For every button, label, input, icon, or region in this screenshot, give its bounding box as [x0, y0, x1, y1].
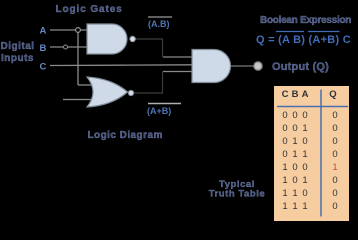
svg-text:0: 0	[292, 162, 297, 173]
svg-text:A: A	[40, 26, 47, 37]
svg-text:1: 1	[292, 201, 297, 212]
svg-text:1: 1	[282, 201, 287, 212]
svg-text:0: 0	[332, 188, 337, 199]
svg-text:0: 0	[332, 136, 337, 147]
svg-text:C: C	[282, 89, 289, 100]
svg-text:0: 0	[302, 110, 307, 121]
svg-text:1: 1	[292, 149, 297, 160]
svg-text:B: B	[292, 89, 299, 100]
svg-text:0: 0	[302, 188, 307, 199]
svg-text:0: 0	[282, 123, 287, 134]
svg-text:0: 0	[302, 136, 307, 147]
svg-text:Truth Table: Truth Table	[209, 189, 266, 200]
svg-text:0: 0	[282, 149, 287, 160]
svg-text:1: 1	[302, 123, 307, 134]
svg-text:Logic Gates: Logic Gates	[56, 4, 123, 15]
svg-text:0: 0	[332, 201, 337, 212]
svg-text:B: B	[40, 43, 47, 54]
svg-text:Q: Q	[329, 89, 336, 100]
svg-text:0: 0	[302, 162, 307, 173]
svg-text:0: 0	[282, 110, 287, 121]
svg-text:1: 1	[282, 188, 287, 199]
svg-text:1: 1	[282, 175, 287, 186]
svg-text:1: 1	[302, 201, 307, 212]
svg-text:Boolean Expression: Boolean Expression	[260, 15, 351, 26]
svg-text:Output (Q): Output (Q)	[272, 61, 329, 73]
svg-text:1: 1	[292, 188, 297, 199]
svg-text:0: 0	[332, 123, 337, 134]
svg-text:0: 0	[292, 110, 297, 121]
svg-text:1: 1	[292, 136, 297, 147]
svg-text:1: 1	[302, 175, 307, 186]
svg-text:0: 0	[332, 149, 337, 160]
svg-text:1: 1	[302, 149, 307, 160]
svg-text:(A.B): (A.B)	[148, 19, 170, 29]
svg-text:1: 1	[282, 162, 287, 173]
svg-text:C: C	[40, 62, 47, 73]
svg-text:Logic Diagram: Logic Diagram	[88, 130, 163, 141]
svg-text:0: 0	[332, 175, 337, 186]
svg-text:Digital: Digital	[1, 41, 35, 52]
svg-text:A: A	[302, 89, 309, 100]
svg-text:0: 0	[292, 123, 297, 134]
svg-text:0: 0	[332, 110, 337, 121]
svg-text:0: 0	[282, 136, 287, 147]
svg-text:0: 0	[292, 175, 297, 186]
svg-text:Q = (A B) (A+B) C: Q = (A B) (A+B) C	[256, 34, 351, 46]
svg-text:Inputs: Inputs	[1, 53, 34, 64]
svg-text:1: 1	[332, 162, 337, 173]
svg-text:(A+B): (A+B)	[147, 106, 171, 116]
